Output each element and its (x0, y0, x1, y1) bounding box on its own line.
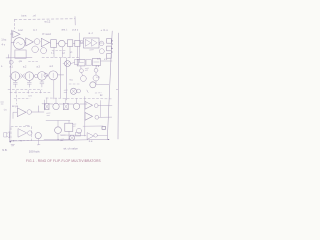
resistor R10 (65, 123, 73, 131)
oscillator V1 (14, 38, 25, 49)
amplifier U5 (17, 108, 26, 117)
tube Vb (94, 68, 98, 72)
wire dashed input (29, 60, 39, 62)
svg-text:1 kc: 1 kc (1, 37, 7, 41)
node tick (87, 90, 88, 93)
svg-text:100 kc/s: 100 kc/s (29, 149, 40, 153)
node junctions on bus (111, 41, 114, 52)
tube V10 (73, 103, 79, 109)
resistor R4 (107, 39, 112, 44)
wire row1 links (49, 43, 75, 44)
tick on frame (116, 88, 118, 90)
wire osc input (11, 42, 14, 44)
wire link ticks (73, 124, 76, 126)
resistor R5 (107, 46, 112, 51)
resistor R11 (76, 132, 81, 136)
svg-text:w.12: w.12 (45, 20, 51, 24)
svg-text:N.B.: N.B. (2, 148, 7, 152)
capacitor C6 (40, 82, 44, 87)
wire mid row3 (42, 103, 87, 105)
wire lower links (46, 121, 70, 127)
capacitor C5 (27, 82, 31, 87)
wire section divider (79, 33, 81, 62)
resistor R1 (51, 40, 57, 48)
label mid marks (85, 68, 88, 70)
tube V11 (55, 127, 62, 134)
relay K1 (77, 60, 85, 66)
speaker LS1 (4, 132, 9, 138)
tube Vf (94, 134, 98, 138)
node blob (81, 40, 84, 43)
transformer T1 (59, 40, 66, 47)
svg-text:FIG.1 . RING OF FLIP-FLOP MUL: FIG.1 . RING OF FLIP-FLOP MULTIVIBRATORS (26, 159, 101, 163)
resistor Rn (86, 60, 91, 65)
amplifier U7 (85, 113, 93, 121)
svg-text:o.e: o.e (89, 140, 93, 143)
wire amps feed (85, 97, 112, 137)
resistor R13 (102, 127, 106, 130)
svg-text:s.: s. (1, 65, 3, 68)
wire ring row (9, 75, 63, 76)
wire tube links (63, 62, 75, 63)
node junctions bottom bus (13, 139, 108, 141)
resistor R3 (75, 40, 80, 46)
amplifier input arrow (10, 31, 20, 38)
wire input feeder (6, 55, 32, 58)
wire amp out (32, 106, 44, 112)
wire inter-amp vertical (100, 101, 102, 118)
svg-text:..el: ..el (32, 13, 36, 17)
wire bottom bus (10, 140, 109, 142)
wire osc to amp (24, 41, 25, 43)
resistor R2 (67, 40, 72, 47)
wire probe dashes (14, 97, 30, 99)
svg-text:o.sc: o.sc (18, 29, 24, 32)
wire right bus A (107, 31, 112, 140)
resistor R0 (15, 50, 26, 58)
resistor R7 marks (16, 90, 41, 93)
wire dashed under row1 (42, 57, 79, 59)
wire dashed gate line (8, 88, 42, 90)
amplifier U1 (41, 38, 49, 46)
caption FIG 1 (26, 159, 101, 163)
flipflop A2 (25, 72, 34, 81)
label under block (90, 49, 94, 51)
svg-text:P. wod: P. wod (43, 32, 52, 36)
wire row1 stubs (54, 46, 77, 57)
transformer T0 (34, 39, 40, 45)
mixer M1 (45, 104, 49, 110)
tube Ve (76, 128, 81, 133)
wire dashed probe (15, 95, 17, 104)
ground hatch (11, 144, 15, 146)
label small (61, 139, 64, 141)
label lc marks (64, 90, 67, 92)
wire to ladder (80, 42, 103, 44)
wire bottom link (60, 134, 86, 136)
wire ff4 drop (53, 80, 55, 99)
resistor R6 (107, 54, 112, 59)
wire dashed drop left (14, 19, 16, 29)
tube V6 (77, 89, 81, 93)
wire lower bus (44, 131, 70, 139)
relay K2 (92, 59, 100, 66)
svg-text:wt. ch value: wt. ch value (64, 147, 79, 151)
wire right column links (96, 61, 112, 85)
label mid-low marks (47, 113, 51, 115)
wire dashed mid (69, 83, 80, 85)
amplifier U9 (87, 133, 93, 140)
capacitor C1 (41, 48, 47, 54)
svg-text:..ps: ..ps (18, 60, 23, 63)
amplifier U8 (18, 129, 27, 137)
dashed box B2 (11, 127, 32, 141)
capacitor C9 (95, 115, 99, 119)
capacitor C0 (32, 46, 39, 53)
svg-text:i.w.s: i.w.s (21, 14, 27, 18)
amplifier U1a (26, 38, 34, 46)
mixer V5 (70, 88, 76, 94)
tube Vd (93, 75, 99, 81)
svg-text:+ 3..v: + 3..v (101, 28, 109, 32)
wire left bus (10, 30, 12, 141)
tube V9 (53, 103, 59, 109)
wire dashed lower gate (10, 91, 50, 93)
resistor Rm (75, 59, 79, 64)
wire dashed right stub (95, 92, 102, 94)
wire U9 out (97, 135, 107, 137)
wire top dashed boundary (15, 18, 76, 21)
tube Vc (81, 76, 87, 82)
wire upper link (83, 125, 103, 127)
tube V8 (28, 131, 32, 135)
coupling C2 (35, 74, 38, 77)
wire amp in (13, 112, 17, 118)
flipflop A1 (11, 72, 20, 81)
svg-text:a. c: a. c (89, 31, 94, 35)
wire dashed row3 top (46, 97, 112, 100)
wire mid verticals (61, 58, 67, 100)
amplifier block U2 (84, 38, 100, 48)
svg-text:v.t: v.t (70, 51, 73, 54)
amplifier U6 (85, 101, 93, 109)
wire row3 stubs (47, 98, 77, 104)
capacitor C8 (94, 104, 98, 108)
wire dashed mid row1 (52, 49, 66, 51)
capacitor C4 (13, 82, 17, 87)
svg-text:sc.pe: sc.pe (12, 105, 19, 108)
tube V7 (90, 82, 96, 88)
node corner blob (9, 141, 11, 143)
label in box (26, 124, 30, 126)
wire right frame B (117, 33, 120, 139)
tube V3 (99, 49, 104, 54)
flipflop A4 (49, 71, 58, 80)
tube V4 (65, 61, 71, 67)
tube V2 (99, 41, 104, 46)
tube Va (80, 69, 84, 73)
svg-text:o.t: o.t (97, 57, 100, 61)
terminal J1 (9, 60, 13, 64)
mixer V12 (69, 135, 74, 140)
svg-text:p.a c: p.a c (73, 28, 79, 31)
mixer M2 (64, 103, 69, 109)
wire top bracket (74, 17, 76, 26)
coupling C3 (44, 73, 48, 77)
flipflop A3 (38, 72, 47, 81)
label under box (61, 134, 65, 136)
ground mark (1, 102, 4, 104)
wire relay verticals (81, 65, 96, 84)
wire stub x44 (43, 100, 45, 110)
svg-text:am..t: am..t (62, 28, 68, 32)
coupling X1 (21, 74, 25, 78)
wire ring stubs (15, 80, 42, 82)
svg-text:b.f: b.f (34, 28, 37, 32)
capacitor C7 (27, 110, 32, 115)
small annotation texts (1, 13, 108, 153)
meter M3 (35, 133, 41, 139)
